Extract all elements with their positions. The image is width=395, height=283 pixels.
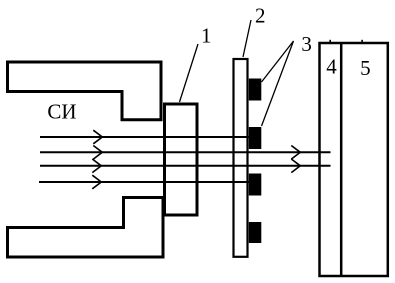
- arrowhead ray 1: [93, 130, 102, 144]
- ray 3: [40, 165, 331, 167]
- absorber 3 (second): [249, 127, 261, 149]
- absorber 3 (third): [249, 174, 261, 196]
- lower pole piece of magnet: [8, 198, 164, 258]
- svg-text:2: 2: [255, 3, 266, 27]
- leader line for 3 to second absorber: [262, 41, 294, 126]
- plate 2: [234, 59, 248, 257]
- leader line for 3 to top absorber: [262, 41, 294, 82]
- divider between 4 and 5: [340, 43, 343, 276]
- svg-text:3: 3: [301, 32, 312, 56]
- screen 4 and detector 5 outer box: [320, 43, 388, 276]
- ray 2: [40, 151, 331, 153]
- arrowhead ray 2 right: [291, 146, 300, 160]
- arrowhead ray 3 right: [291, 159, 300, 173]
- upper pole piece of magnet: [8, 62, 162, 120]
- tick mark right: [361, 40, 363, 42]
- arrowhead ray 2 left: [93, 146, 102, 160]
- arrowhead ray 4: [92, 175, 101, 189]
- svg-text:4: 4: [326, 55, 337, 79]
- svg-text:5: 5: [360, 56, 371, 80]
- ray 1: [40, 136, 255, 138]
- leader line for 2: [243, 20, 251, 57]
- tick mark left: [329, 40, 331, 42]
- svg-text:1: 1: [201, 24, 212, 48]
- absorber 3 (top): [249, 79, 261, 101]
- svg-text:СИ: СИ: [47, 100, 76, 124]
- leader line for 1: [180, 44, 199, 102]
- arrowhead ray 3 left: [92, 159, 101, 173]
- crystal 1: [165, 104, 198, 215]
- absorber 3 (bottom): [249, 222, 261, 243]
- ray 4: [39, 181, 255, 183]
